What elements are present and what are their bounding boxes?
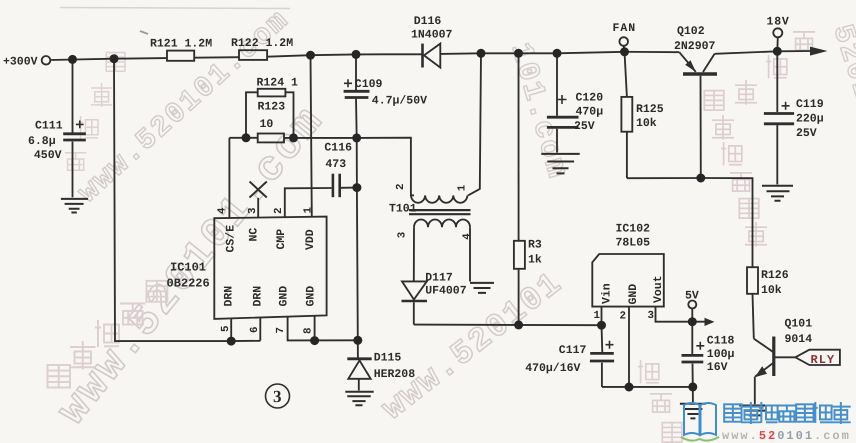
svg-text:10k: 10k xyxy=(761,284,782,297)
junction IC102 pin1 xyxy=(597,321,606,330)
transformer T101 secondary winding xyxy=(414,219,470,227)
svg-text:CS/E: CS/E xyxy=(225,225,238,253)
svg-text:R121 1.2M: R121 1.2M xyxy=(150,38,212,51)
diode D117 UF4007 xyxy=(402,281,427,299)
logo book icon xyxy=(681,403,719,441)
IC101 pin8 lead xyxy=(314,316,316,341)
svg-text:1k: 1k xyxy=(528,254,542,267)
svg-text:4: 4 xyxy=(462,233,474,240)
svg-text:C116: C116 xyxy=(324,142,352,155)
svg-text:18V: 18V xyxy=(767,16,790,29)
IC op-amp U1 IC101 OB2226 body xyxy=(214,217,326,319)
wire VDD pin1 from rail xyxy=(311,55,312,217)
svg-text:Vout: Vout xyxy=(652,275,665,303)
svg-text:NC: NC xyxy=(248,228,261,242)
junction 5V node xyxy=(688,317,697,326)
resistor R3 xyxy=(518,53,520,241)
wire CMP pin2 to C116 xyxy=(285,188,332,217)
svg-text:HER208: HER208 xyxy=(374,368,416,381)
junction IC101 pin8 xyxy=(310,336,319,345)
svg-text:100μ: 100μ xyxy=(707,348,735,361)
diode D115 HER208 xyxy=(357,340,359,357)
ground under C118 xyxy=(692,387,694,403)
no-connect X mark pin3 xyxy=(257,198,259,217)
capacitor C109 xyxy=(355,54,357,90)
junction IC101 pin5 xyxy=(227,337,236,346)
svg-text:www.520101.com: www.520101.com xyxy=(722,429,851,443)
capacitor C119 xyxy=(776,51,778,112)
svg-text:Vin: Vin xyxy=(601,283,614,304)
IC101 pin7 lead xyxy=(288,317,358,341)
wire DRN pins join xyxy=(231,340,260,342)
svg-text:16V: 16V xyxy=(707,361,728,374)
ground under T101 pin4 xyxy=(470,283,494,293)
svg-text:Q101: Q101 xyxy=(785,318,813,331)
resistor R122 xyxy=(239,50,267,60)
svg-text:6.8μ: 6.8μ xyxy=(28,135,56,148)
transistor Q102 2N2907 xyxy=(683,72,717,75)
junction C109 bottom node xyxy=(352,133,361,142)
svg-text:www.520101: www.520101 xyxy=(375,264,570,427)
junction C120 top xyxy=(553,49,562,58)
svg-text:25V: 25V xyxy=(574,120,595,133)
wire snubber node down to C116/D115 xyxy=(356,138,358,188)
svg-text:0B2226: 0B2226 xyxy=(167,277,210,291)
svg-text:1: 1 xyxy=(303,207,315,214)
svg-text:C109: C109 xyxy=(355,78,383,91)
svg-text:2: 2 xyxy=(273,208,285,214)
capacitor C116 xyxy=(332,174,335,198)
svg-text:7: 7 xyxy=(275,327,287,333)
svg-text:R123: R123 xyxy=(258,101,286,114)
svg-text:DRN: DRN xyxy=(252,286,265,307)
wire common ground bus C117/C118 xyxy=(602,386,693,388)
svg-text:T101: T101 xyxy=(389,203,417,216)
svg-text:3: 3 xyxy=(397,232,409,238)
wire R125 to Q102 base node xyxy=(627,177,701,179)
svg-text:25V: 25V xyxy=(796,127,817,140)
svg-text:R124 1: R124 1 xyxy=(257,77,299,90)
svg-text:IC102: IC102 xyxy=(616,223,651,236)
svg-text:D117: D117 xyxy=(425,271,453,284)
svg-text:10k: 10k xyxy=(636,117,657,130)
wire T101 pin4 to ground xyxy=(469,227,471,281)
wire main top rail left section xyxy=(50,58,167,60)
watermark zh left top column xyxy=(65,53,125,171)
svg-text:RLY: RLY xyxy=(811,353,836,367)
wire rail D116 to Q102 xyxy=(440,52,679,54)
ground under D115 xyxy=(345,392,373,405)
transformer T101 core xyxy=(409,210,471,214)
svg-text:470μ: 470μ xyxy=(576,106,604,119)
ground under C119 xyxy=(762,186,793,201)
junction T101 pin1 rail xyxy=(477,49,486,58)
svg-text:5: 5 xyxy=(220,326,232,332)
svg-text:2: 2 xyxy=(395,184,407,190)
junction DRN feed xyxy=(110,54,119,63)
resistor R124 xyxy=(258,89,286,97)
svg-text:8: 8 xyxy=(303,328,315,334)
watermark zh right column xyxy=(704,32,815,247)
node +300V input terminal xyxy=(42,56,51,65)
svg-text:IC101: IC101 xyxy=(170,261,206,275)
junction Q102 base node xyxy=(696,174,705,183)
svg-text:UF4007: UF4007 xyxy=(425,285,467,298)
svg-text:GND: GND xyxy=(278,286,291,307)
logo site name 家电维修资料网 pseudo glyphs xyxy=(724,402,851,424)
junction R3 bottom xyxy=(514,320,523,329)
capacitor C117 xyxy=(601,325,604,352)
svg-text:3: 3 xyxy=(247,208,259,214)
svg-text:78L05: 78L05 xyxy=(616,237,651,250)
svg-text:R126: R126 xyxy=(761,269,789,282)
arrow 5V output xyxy=(705,318,715,326)
transformer T101 primary winding xyxy=(411,195,467,202)
svg-text:4.7μ/50V: 4.7μ/50V xyxy=(372,95,427,108)
arrow rail output right xyxy=(810,47,828,56)
wire T101 pin3 to D117 xyxy=(413,227,415,281)
svg-text:2: 2 xyxy=(620,311,626,323)
svg-text:FAN: FAN xyxy=(613,22,637,35)
wire rail R121-R122 xyxy=(194,56,239,59)
svg-text:C111: C111 xyxy=(35,120,63,133)
IC102 pin2 lead xyxy=(628,307,630,387)
junction 18V node xyxy=(773,47,782,56)
svg-text:4: 4 xyxy=(217,207,229,214)
svg-text:3: 3 xyxy=(648,310,654,322)
watermark zh bottom-middle column xyxy=(638,360,682,442)
junction C116 right xyxy=(352,183,361,192)
ground under Q101 emitter xyxy=(739,406,770,416)
junction FAN node xyxy=(620,47,629,56)
svg-text:R122 1.2M: R122 1.2M xyxy=(231,37,293,50)
wire secondary output to IC102 Vin xyxy=(414,324,602,327)
capacitor C111 xyxy=(72,59,74,132)
svg-text:D115: D115 xyxy=(374,352,402,365)
IC102 pin1 lead xyxy=(601,307,603,326)
ground under C111 xyxy=(61,199,88,213)
IC102 pin3 lead to 5V arrow xyxy=(656,307,707,322)
wire +300V rail down to DRN pins (x115 vertical) xyxy=(114,59,231,341)
svg-text:C120: C120 xyxy=(576,92,604,105)
wire snubber node to T101 pin2 xyxy=(357,138,414,196)
svg-text:C119: C119 xyxy=(796,98,824,111)
capacitor C120 xyxy=(556,53,558,116)
IC101 pin5 lead xyxy=(230,318,232,341)
IC102 78L05 body xyxy=(592,254,664,307)
svg-text:1N4007: 1N4007 xyxy=(411,29,453,42)
watermark zh bottom-left diagonal xyxy=(48,281,168,388)
wire T101 pin1 to rail xyxy=(468,53,481,195)
circled 3 figure number xyxy=(266,384,290,408)
junction R124/R123 right xyxy=(289,133,298,142)
svg-text:VDD: VDD xyxy=(304,229,317,250)
svg-text:C118: C118 xyxy=(707,335,735,348)
svg-text:D116: D116 xyxy=(414,15,442,28)
resistor R121 xyxy=(167,51,194,61)
junction D115 anode node xyxy=(353,336,362,345)
diode D116 1N4007 xyxy=(421,44,424,68)
svg-text:450V: 450V xyxy=(34,149,62,162)
transistor Q101 9014 xyxy=(772,337,775,377)
svg-text:R3: R3 xyxy=(528,239,542,252)
wire rail R122 to D116 xyxy=(267,54,422,56)
resistor R123 xyxy=(258,134,284,143)
LOGO xyxy=(681,402,851,443)
svg-text:GND: GND xyxy=(305,286,318,307)
svg-text:2N2907: 2N2907 xyxy=(674,40,716,53)
svg-text:1: 1 xyxy=(457,184,469,191)
wire CS/E pin4 xyxy=(228,138,230,218)
svg-text:+300V: +300V xyxy=(3,56,38,69)
wire rail Q102 to 18V arrow xyxy=(715,51,812,54)
svg-text:CMP: CMP xyxy=(275,229,288,250)
wire Q102 base node to R126 xyxy=(701,178,753,267)
RLY flag xyxy=(795,350,840,365)
svg-text:DRN: DRN xyxy=(223,286,236,307)
capacitor C118 xyxy=(691,322,693,354)
ground under C120 xyxy=(541,154,579,174)
resistor R125 xyxy=(625,52,627,97)
junction C118 bottom xyxy=(688,382,697,391)
junction C111 top xyxy=(68,55,77,64)
resistor R126 xyxy=(747,267,758,294)
scan artifact line top xyxy=(60,8,290,9)
svg-text:470μ/16V: 470μ/16V xyxy=(525,362,580,375)
svg-text:9014: 9014 xyxy=(785,333,813,346)
svg-text:1: 1 xyxy=(594,310,601,322)
node 5V terminal xyxy=(688,301,696,309)
svg-text:6: 6 xyxy=(249,327,261,333)
svg-text:GND: GND xyxy=(627,284,640,305)
svg-text:520101.com: 520101.com xyxy=(825,21,856,216)
junction IC102 pin2 ground xyxy=(625,383,634,392)
junction R3 top xyxy=(514,49,523,58)
svg-text:R125: R125 xyxy=(636,103,664,116)
node FAN terminal xyxy=(619,37,628,46)
junction C109 top xyxy=(352,50,361,59)
svg-text:C117: C117 xyxy=(559,344,587,357)
svg-text:5V: 5V xyxy=(685,290,699,303)
svg-text:3: 3 xyxy=(273,387,282,406)
junction VDD feed xyxy=(306,51,315,60)
svg-text:220μ: 220μ xyxy=(796,113,824,126)
node 18V terminal xyxy=(773,28,782,37)
junction R124/R123 left xyxy=(242,133,251,142)
svg-text:Q102: Q102 xyxy=(677,25,705,38)
IC101 pin6 lead xyxy=(259,318,261,341)
svg-text:10: 10 xyxy=(260,118,274,131)
svg-text:473: 473 xyxy=(325,158,346,171)
